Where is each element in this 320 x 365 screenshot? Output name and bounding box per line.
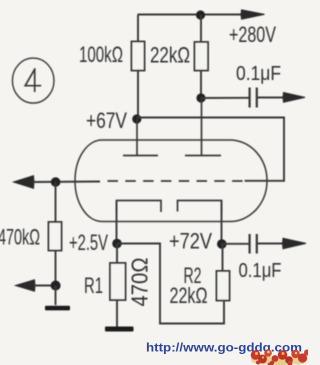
capacitor 0.1uF bottom: left plate bbox=[249, 234, 251, 254]
node dot on +280V rail bbox=[196, 10, 205, 19]
node cathode1 +2.5V bbox=[112, 239, 122, 249]
anode plate 1 (stem + bar) bbox=[136, 119, 138, 156]
svg-text:+72V: +72V bbox=[169, 229, 212, 254]
wire +280V rail bbox=[138, 14, 243, 16]
svg-text:R1: R1 bbox=[84, 273, 103, 298]
svg-text:0.1μF: 0.1μF bbox=[236, 63, 281, 85]
resistor 22k top lead bbox=[200, 15, 202, 42]
ground (left) bbox=[45, 306, 70, 311]
anode plate 2 (stem + bar) bbox=[201, 98, 203, 156]
capacitor 0.1uF bottom: right plate bbox=[256, 234, 258, 254]
resistor R2 body bbox=[217, 271, 230, 301]
circle label 4 (stage number) bbox=[12, 58, 54, 103]
wire node to top coupling cap bbox=[201, 97, 249, 99]
svg-text:0.1μF: 0.1μF bbox=[239, 260, 282, 282]
resistor 470k body bbox=[49, 222, 62, 251]
svg-text:+280V: +280V bbox=[229, 22, 276, 47]
resistor 100k body bbox=[132, 42, 145, 71]
svg-text:100kΩ: 100kΩ bbox=[79, 42, 123, 67]
arrow +280V output bbox=[241, 10, 265, 19]
cathode 2 lead to node bbox=[221, 201, 223, 245]
capacitor 0.1uF top: right plate bbox=[256, 88, 258, 108]
arrow bottom output bbox=[283, 238, 307, 249]
wire input to grid bbox=[33, 181, 100, 184]
arrow lower-left (feedback tap) bbox=[16, 280, 36, 291]
wire cap to output arrow bbox=[258, 97, 284, 99]
svg-text:+2.5V: +2.5V bbox=[69, 230, 108, 255]
svg-text:22kΩ: 22kΩ bbox=[170, 283, 208, 308]
node grid1 / 470k junction bbox=[51, 177, 61, 187]
wire cap to bottom output arrow bbox=[258, 243, 284, 245]
resistor R1 body bbox=[110, 263, 126, 300]
svg-text:470Ω: 470Ω bbox=[127, 258, 153, 307]
resistor R1 bottom lead bbox=[116, 300, 118, 327]
svg-text:470kΩ: 470kΩ bbox=[0, 225, 40, 250]
tube envelope V1 bbox=[75, 140, 267, 222]
resistor 22k body bbox=[195, 42, 209, 71]
node cathode2 +72V bbox=[217, 239, 227, 249]
svg-text:+67V: +67V bbox=[86, 108, 127, 133]
wire +72V node to bottom coupling cap bbox=[221, 243, 249, 245]
wire 470k to lower node bbox=[55, 251, 57, 286]
input arrow (left, to grid 1) bbox=[14, 176, 35, 189]
arrow top output bbox=[283, 93, 305, 103]
wire arrow to node bbox=[34, 285, 55, 287]
capacitor 0.1uF top: left plate bbox=[249, 88, 251, 108]
wire plate1 to grid2 (over tube, down right side) bbox=[137, 118, 284, 181]
resistor 22k bottom lead bbox=[200, 71, 202, 99]
wire 470k branch: grid node down bbox=[55, 182, 57, 222]
node 470k / ground junction bbox=[51, 281, 61, 291]
resistor 100k: top lead bbox=[137, 15, 139, 42]
node +67V plate1 bbox=[132, 114, 141, 123]
svg-text:22kΩ: 22kΩ bbox=[150, 43, 190, 68]
resistor 100k bottom lead bbox=[137, 71, 139, 120]
cathode 1 lead to node bbox=[116, 201, 118, 244]
wire cathode1 node to R2 bottom (L path) bbox=[117, 244, 224, 324]
grid 1+2 dashed line bbox=[108, 180, 245, 182]
wire node to ground bbox=[55, 286, 57, 306]
cathode 2 bracket bbox=[178, 201, 222, 215]
cathode 1 bracket bbox=[117, 201, 162, 215]
node plate2 / coupling cap junction bbox=[196, 93, 205, 102]
resistor R2 top lead bbox=[222, 244, 224, 271]
resistor R1 top lead bbox=[116, 244, 118, 264]
watermark logo (red flowers) bbox=[251, 349, 310, 365]
ground (under R1) bbox=[105, 327, 134, 332]
